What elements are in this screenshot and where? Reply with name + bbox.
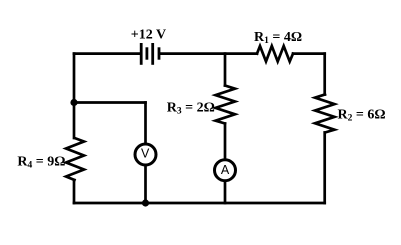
resistor R2 zigzag [315, 95, 335, 133]
node junction dot bottom [142, 199, 149, 206]
wire R3 top lead [224, 54, 227, 86]
resistor R4 zigzag [66, 138, 84, 180]
wire voltmeter bottom lead [144, 166, 147, 204]
svg-text:+12 V: +12 V [131, 28, 166, 43]
wire bottom horizontal [74, 202, 325, 205]
wire right vertical lower [323, 133, 326, 204]
svg-text:R2 = 6Ω: R2 = 6Ω [338, 107, 386, 123]
ammeter A1 circle [215, 160, 236, 181]
battery plate tall positive left [140, 43, 143, 65]
svg-text:A: A [221, 163, 230, 177]
wire R1 to top-right corner [293, 52, 325, 55]
battery plate short negative right [158, 47, 161, 59]
node junction dot left [70, 99, 77, 106]
svg-text:V: V [141, 147, 150, 161]
wire R4 bottom lead [73, 180, 76, 203]
svg-text:R1 = 4Ω: R1 = 4Ω [254, 30, 302, 46]
wire voltmeter top lead [144, 103, 147, 144]
svg-text:R4 = 9Ω: R4 = 9Ω [17, 154, 65, 170]
wire ammeter bottom lead [224, 182, 227, 204]
battery +12V cell plates [141, 43, 159, 65]
svg-text:R3 = 2Ω: R3 = 2Ω [167, 101, 215, 117]
wire inner horizontal [74, 101, 146, 104]
wire top-left horizontal (corner to battery) [74, 52, 140, 55]
wire battery to R1 [160, 52, 257, 55]
wire left vertical upper [73, 54, 76, 103]
battery plate short negative [145, 47, 148, 59]
wire R4 top lead [73, 103, 76, 139]
battery plate tall positive [151, 43, 154, 65]
wire R3 to ammeter [224, 124, 227, 159]
resistor R3 zigzag [216, 86, 236, 124]
voltmeter V1 circle [135, 144, 156, 165]
resistor R1 zigzag [257, 46, 293, 62]
wire right vertical upper [323, 54, 326, 95]
